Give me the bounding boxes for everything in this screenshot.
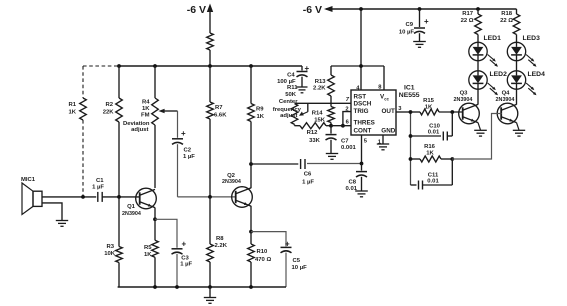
svg-text:1K: 1K (142, 106, 150, 112)
svg-text:2.2K: 2.2K (313, 86, 326, 92)
ground (Q3 emitter) (474, 123, 487, 137)
svg-text:33K: 33K (309, 138, 321, 144)
svg-text:R1: R1 (68, 102, 76, 108)
op-amp/timer IC1 NE555 box (351, 90, 396, 135)
node R16-right (450, 157, 454, 161)
pin 6 THRES (331, 120, 351, 126)
node Q3-base (450, 110, 454, 114)
svg-text:C8: C8 (348, 179, 356, 185)
capacitor C7 (326, 126, 357, 154)
light arrows LED4 (526, 83, 536, 95)
transistor Q1 (122, 188, 156, 217)
resistor R14 (312, 103, 335, 125)
svg-text:TRIG: TRIG (354, 108, 369, 115)
svg-text:C2: C2 (184, 148, 192, 154)
svg-text:R8: R8 (216, 236, 224, 242)
resistor R15 (411, 98, 464, 115)
resistor R8 (207, 197, 228, 287)
svg-text:Q1: Q1 (127, 204, 136, 210)
svg-text:-6 V: -6 V (303, 4, 322, 16)
supply -6V (left) (187, 4, 213, 34)
resistor R9 (248, 66, 265, 164)
svg-text:22 Ω: 22 Ω (461, 18, 474, 24)
node Q2-base (208, 195, 212, 199)
svg-text:2N3904: 2N3904 (454, 97, 473, 103)
node CONT-C8 (360, 162, 364, 166)
ground (C7) (326, 154, 338, 160)
LED LED2 (469, 71, 507, 89)
pin 1 GND (378, 135, 383, 145)
svg-text:R18: R18 (501, 11, 513, 17)
main supply bus (119, 65, 302, 67)
LED LED3 (507, 35, 540, 61)
resistor R13 (313, 66, 334, 103)
node OUT (409, 110, 413, 114)
svg-text:R14: R14 (312, 111, 324, 117)
resistor R2 (103, 66, 123, 197)
wire (LED3 to LED4) (516, 61, 518, 71)
resistor R18 (500, 9, 520, 42)
svg-text:R16: R16 (424, 144, 436, 150)
supply -6V (right) (303, 4, 333, 16)
svg-text:C5: C5 (293, 258, 301, 264)
ground (C9) (413, 42, 426, 48)
svg-text:MIC1: MIC1 (21, 177, 36, 183)
capacitor C6 (251, 159, 314, 186)
svg-text:LED4: LED4 (528, 71, 546, 78)
node bus-supply (208, 64, 212, 68)
svg-text:10 µF: 10 µF (399, 30, 415, 36)
svg-text:1K: 1K (144, 252, 152, 258)
svg-text:1K: 1K (257, 114, 265, 120)
LED LED4 (507, 71, 545, 89)
svg-text:470 Ω: 470 Ω (255, 257, 271, 263)
resistor R10 (248, 232, 272, 287)
node C10-branch (409, 134, 413, 138)
wire (R13/R14 junction to R11) (295, 102, 332, 104)
label IC1 NE555 (399, 85, 420, 100)
svg-text:-6 V: -6 V (187, 4, 206, 16)
node bus-R2 (117, 64, 121, 68)
pin 4 RST (356, 9, 361, 91)
svg-text:C7: C7 (341, 139, 349, 145)
pin 2 TRIG (343, 106, 351, 125)
light arrows LED1 (488, 55, 498, 67)
svg-text:6.6K: 6.6K (214, 113, 227, 119)
svg-text:C6: C6 (304, 172, 312, 178)
wire (LED2 to Q3 collector) (477, 89, 479, 104)
svg-text:2N3904: 2N3904 (222, 179, 241, 185)
node Q1-base (117, 195, 121, 199)
svg-text:0.01: 0.01 (428, 130, 440, 136)
svg-text:+: + (424, 17, 429, 26)
svg-text:NE555: NE555 (399, 92, 420, 99)
microphone MIC1 (21, 177, 42, 215)
ground (C4) (297, 87, 308, 93)
capacitor C2 (172, 111, 195, 197)
svg-text:DSCH: DSCH (354, 100, 372, 107)
svg-text:R13: R13 (315, 79, 327, 85)
wire (Q2 emitter) (250, 206, 252, 232)
node rail-R5 (153, 285, 157, 289)
svg-text:22 Ω: 22 Ω (500, 18, 513, 24)
svg-text:2.2K: 2.2K (215, 243, 228, 249)
capacitor C3 (172, 240, 193, 288)
node rail-R8 (208, 285, 212, 289)
capacitor C5 (281, 240, 308, 287)
wire (LED1 to LED2) (477, 61, 479, 71)
svg-text:2: 2 (345, 106, 348, 112)
resistor R3 (104, 197, 122, 287)
svg-text:C10: C10 (429, 123, 441, 129)
node Q2-emitter (249, 230, 253, 234)
transistor Q2 (222, 173, 252, 207)
svg-text:1 µF: 1 µF (183, 154, 195, 160)
wire (C2 to Q2 base) (178, 196, 236, 198)
svg-text:CONT: CONT (354, 128, 372, 135)
svg-text:C4: C4 (287, 73, 295, 79)
LED LED1 (469, 35, 501, 61)
svg-text:R4: R4 (142, 100, 150, 106)
svg-text:C9: C9 (405, 22, 413, 28)
svg-text:R2: R2 (105, 102, 113, 108)
svg-text:50K: 50K (285, 92, 297, 98)
wire (mic output) (42, 196, 96, 198)
pin 5 CONT (362, 135, 368, 164)
resistor R5 (144, 219, 158, 287)
ground rail (118, 286, 286, 288)
svg-text:+: + (285, 240, 290, 249)
wire (C1 to Q1 base) (102, 196, 140, 198)
svg-text:adjust: adjust (280, 113, 297, 119)
svg-text:1 µF: 1 µF (302, 180, 314, 186)
capacitor C8 (346, 164, 367, 192)
wire (Q2 collector) (250, 164, 252, 188)
svg-text:1K: 1K (68, 110, 76, 116)
wire (emitter to C3) (155, 219, 177, 248)
wire (OUT node vertical) (410, 112, 412, 185)
svg-text:1K: 1K (425, 105, 433, 111)
svg-text:+: + (305, 64, 310, 73)
capacitor C1 (92, 178, 104, 202)
pin 8 Vcc (378, 66, 384, 90)
svg-text:LED3: LED3 (523, 35, 541, 42)
svg-text:R12: R12 (307, 130, 319, 136)
svg-text:R5: R5 (144, 245, 152, 251)
svg-text:Center: Center (279, 99, 298, 105)
node rail-R17 (476, 7, 480, 11)
svg-text:1 µF: 1 µF (180, 262, 192, 268)
node bus-R9 (249, 64, 253, 68)
resistor (supply dropper, unlabeled) (207, 33, 214, 66)
node bus-R4 (153, 64, 157, 68)
node rail-C9 (418, 7, 422, 11)
svg-text:R9: R9 (256, 107, 264, 113)
svg-text:R3: R3 (106, 244, 114, 250)
resistor R16 (411, 144, 453, 162)
wire (RST/Vcc top) (331, 65, 384, 67)
transistor Q4 (496, 91, 518, 124)
svg-text:R17: R17 (462, 11, 474, 17)
light arrows LED3 (526, 55, 536, 67)
capacitor C11 (411, 159, 453, 190)
node pin4-wire (359, 64, 363, 68)
node rail-R10 (249, 285, 253, 289)
top supply rail (326, 8, 517, 10)
svg-text:1K: 1K (426, 151, 434, 157)
ground (Q4 emitter) (513, 123, 525, 137)
svg-text:R7: R7 (215, 105, 223, 111)
svg-text:2N3904: 2N3904 (122, 211, 141, 217)
svg-text:+: + (182, 240, 187, 249)
ground (main) (204, 287, 216, 303)
node Q1-emitter (153, 217, 157, 221)
potentiometer R4 (123, 66, 178, 188)
wire (dashed bus segment) (83, 65, 119, 67)
node mic-R1 (81, 195, 85, 199)
svg-text:R15: R15 (423, 98, 435, 104)
resistor R7 (207, 66, 227, 197)
wire (Q1 emitter) (154, 208, 156, 220)
potentiometer R11 (273, 85, 308, 124)
svg-text:0.001: 0.001 (341, 145, 356, 151)
resistor R1 (68, 66, 86, 197)
capacitor C9 (399, 9, 429, 42)
svg-text:Q4: Q4 (502, 91, 511, 97)
node rail-C3 (175, 285, 179, 289)
svg-text:R11: R11 (287, 85, 298, 91)
wire (C6 to CONT) (307, 163, 362, 165)
ground (C8) (355, 191, 368, 197)
svg-text:FM: FM (141, 113, 150, 119)
resistor R12 (295, 123, 332, 144)
capacitor C10 (411, 112, 453, 141)
wire (R16 to Q4 base) (452, 114, 501, 160)
capacitor C4 (277, 64, 309, 87)
pin 7 DSCH (331, 97, 351, 103)
resistor R17 (461, 9, 482, 42)
wire (emitter to C5) (251, 232, 286, 247)
svg-text:OUT: OUT (382, 108, 395, 115)
svg-text:+: + (181, 129, 186, 138)
svg-text:0.01: 0.01 (427, 179, 439, 185)
svg-text:R10: R10 (257, 249, 269, 255)
svg-text:1 µF: 1 µF (92, 185, 104, 191)
svg-text:C1: C1 (96, 178, 104, 184)
node Q2-collector (249, 162, 253, 166)
ground (IC pin1) (377, 144, 389, 150)
node THRES (329, 124, 333, 128)
ground (microphone) (42, 203, 68, 226)
svg-text:C11: C11 (428, 172, 439, 178)
light arrows LED2 (488, 83, 498, 95)
svg-text:22K: 22K (103, 110, 115, 116)
node TRIG-THRES (341, 124, 345, 128)
svg-text:100 µF: 100 µF (277, 79, 296, 85)
wire (LED4 to Q4 collector) (516, 89, 518, 104)
svg-text:10 µF: 10 µF (292, 265, 308, 271)
svg-text:GND: GND (381, 128, 395, 135)
node rail-pin4 (359, 7, 363, 11)
svg-text:LED2: LED2 (490, 71, 508, 78)
svg-text:THRES: THRES (354, 120, 375, 127)
pin 3 OUT (396, 106, 411, 112)
node R16-left (409, 157, 413, 161)
svg-text:cc: cc (384, 96, 389, 101)
svg-text:IC1: IC1 (404, 85, 415, 92)
svg-text:LED1: LED1 (484, 35, 502, 42)
svg-text:2N3904: 2N3904 (496, 97, 515, 103)
svg-text:10K: 10K (104, 251, 116, 257)
svg-text:Q3: Q3 (460, 91, 469, 97)
svg-text:adjust: adjust (131, 127, 148, 133)
transistor Q3 (454, 91, 480, 124)
